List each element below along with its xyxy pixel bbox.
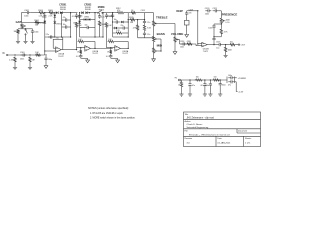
ground <box>87 58 89 60</box>
wire <box>32 34 34 40</box>
title block row line <box>184 128 261 130</box>
svg-text:1K: 1K <box>131 10 134 12</box>
pot GAIN <box>21 23 23 29</box>
ground <box>209 93 211 94</box>
svg-text:1N4148: 1N4148 <box>85 9 91 11</box>
svg-text:100n: 100n <box>24 15 28 17</box>
svg-text:100n: 100n <box>20 58 24 60</box>
svg-text:10K: 10K <box>35 25 39 27</box>
diode D301 <box>56 11 58 14</box>
wire <box>61 13 63 37</box>
wire <box>127 13 129 37</box>
capacitor C328 <box>228 77 231 79</box>
svg-text:+POWER: +POWER <box>238 78 247 80</box>
capacitor C317 <box>144 31 146 33</box>
title block row line <box>184 118 261 120</box>
svg-text:100n: 100n <box>107 16 111 18</box>
wire <box>94 13 96 37</box>
capacitor C307 <box>63 19 66 21</box>
node <box>221 23 222 24</box>
wire <box>219 87 221 93</box>
wire <box>234 77 236 84</box>
resistor R302 <box>35 21 40 23</box>
node <box>189 79 190 80</box>
wire <box>21 28 23 30</box>
diode D308a <box>78 21 81 23</box>
node <box>54 12 55 13</box>
svg-text:1N914: 1N914 <box>84 17 89 19</box>
node <box>102 12 103 13</box>
resistor R312 <box>110 49 112 54</box>
svg-text:PRESENCE: PRESENCE <box>222 12 238 16</box>
svg-text:4.7u: 4.7u <box>76 56 80 58</box>
resistor R316 <box>136 24 138 31</box>
resistor R306 <box>75 22 77 28</box>
resistor R310 <box>105 22 107 28</box>
wire - network2 bottom <box>80 36 103 38</box>
wire <box>236 44 239 46</box>
svg-text:47u: 47u <box>228 84 231 86</box>
pot VOLUME <box>174 36 176 43</box>
node <box>197 10 198 11</box>
wire <box>153 27 155 36</box>
wire <box>153 54 155 57</box>
svg-text:100n: 100n <box>208 27 212 29</box>
ground <box>25 40 27 41</box>
wire <box>62 12 77 14</box>
svg-text:R303: R303 <box>38 10 43 12</box>
wire <box>77 47 85 49</box>
wire <box>22 22 45 24</box>
svg-text:SW301: SW301 <box>99 9 105 11</box>
resistor R318 <box>187 43 193 45</box>
wire <box>103 12 117 14</box>
ground <box>189 93 191 94</box>
resistor R301 <box>17 29 19 34</box>
svg-text:C323: C323 <box>216 42 220 44</box>
diode D302 <box>60 11 62 14</box>
wire <box>180 79 227 81</box>
wire <box>186 25 188 33</box>
node <box>225 44 226 45</box>
node <box>112 21 113 22</box>
node <box>29 54 30 55</box>
wire <box>226 77 228 84</box>
diode D305 <box>44 21 47 23</box>
wire <box>52 39 54 48</box>
svg-text:C302: C302 <box>24 10 29 12</box>
wire <box>158 38 161 40</box>
resistor R311 feedback <box>108 40 115 42</box>
svg-text:10K: 10K <box>108 39 112 41</box>
wire <box>195 44 197 46</box>
ground <box>14 66 16 67</box>
wire <box>20 13 22 23</box>
op-amp U302B <box>202 42 208 47</box>
resistor R322 <box>180 81 182 88</box>
svg-text:Chuck D. Bones: Chuck D. Bones <box>187 124 204 126</box>
wire <box>44 13 46 55</box>
svg-text:2.2K: 2.2K <box>116 30 120 32</box>
wire <box>138 37 154 39</box>
ground <box>186 33 188 35</box>
node <box>144 19 145 20</box>
wire <box>189 88 191 93</box>
svg-text:2. MORE switch shown in the do: 2. MORE switch shown in the down positio… <box>90 117 136 120</box>
wire <box>153 13 155 20</box>
wire <box>115 41 129 43</box>
switch SW301 <box>186 16 188 20</box>
wire <box>88 12 98 14</box>
svg-text:47n: 47n <box>63 17 66 19</box>
svg-text:Sheets: Sheets <box>245 137 251 140</box>
wire <box>128 12 131 14</box>
capacitor C316 <box>144 20 146 22</box>
node <box>128 36 129 37</box>
pot PRESENCE <box>220 18 222 25</box>
wire <box>81 57 88 59</box>
diode D307 <box>54 21 57 23</box>
diode D309 <box>121 21 123 24</box>
svg-text:TL072: TL072 <box>92 53 97 55</box>
svg-text:9V: 9V <box>175 77 178 79</box>
title block document cell <box>236 129 238 133</box>
pot MID <box>152 47 154 54</box>
svg-text:4.7K: 4.7K <box>224 31 228 33</box>
svg-text:4.7u: 4.7u <box>106 56 110 58</box>
ground <box>225 54 227 55</box>
svg-text:File: File <box>185 131 189 133</box>
svg-text:22n: 22n <box>147 34 150 36</box>
svg-text:1 of 1: 1 of 1 <box>245 143 251 145</box>
svg-text:R315: R315 <box>129 17 133 19</box>
resistor R313a <box>131 12 136 14</box>
resistor R317 <box>143 24 145 31</box>
node <box>79 12 80 13</box>
node <box>45 54 46 55</box>
svg-text:1N914: 1N914 <box>38 22 43 24</box>
wire <box>214 23 221 25</box>
wire <box>207 44 216 46</box>
svg-text:47u: 47u <box>200 85 203 87</box>
svg-text:R305: R305 <box>48 10 53 12</box>
wire <box>180 43 197 45</box>
capacitor C324 <box>189 82 191 84</box>
wire <box>198 43 202 45</box>
wire <box>204 88 206 93</box>
wire <box>213 41 215 44</box>
capacitor C314 <box>112 14 114 16</box>
svg-text:10n: 10n <box>63 24 66 26</box>
connector OUT <box>238 44 239 45</box>
svg-text:TL072: TL072 <box>203 51 208 53</box>
wire <box>61 49 76 51</box>
svg-text:1M: 1M <box>14 31 17 33</box>
wire <box>209 88 211 93</box>
resistor R314 <box>116 32 123 34</box>
wire <box>107 47 115 49</box>
ground <box>17 40 19 41</box>
svg-text:MID: MID <box>157 44 163 48</box>
svg-text:1n: 1n <box>42 16 44 18</box>
svg-text:IN: IN <box>2 53 5 55</box>
svg-text:1N914: 1N914 <box>73 22 78 24</box>
wire - network3 bottom <box>113 36 129 38</box>
wire <box>178 39 181 41</box>
wire <box>145 12 154 14</box>
wire <box>94 42 96 49</box>
wire <box>14 63 16 67</box>
node <box>160 50 161 51</box>
capacitor C315a <box>114 21 117 23</box>
diode D303 <box>81 11 83 14</box>
capacitor C322 <box>213 37 215 39</box>
capacitor C327 <box>219 82 221 84</box>
resistor R315 <box>130 19 136 21</box>
svg-text:+4.5V: +4.5V <box>238 91 244 93</box>
capacitor C309a <box>79 14 81 16</box>
resistor R309 <box>98 21 100 27</box>
diode D304 <box>85 11 87 14</box>
node <box>94 48 95 49</box>
diode D306 <box>84 18 86 21</box>
svg-text:1. D5 & D6 are 1N4148 or equiv: 1. D5 & D6 are 1N4148 or equiv. <box>90 112 124 115</box>
resistor R323 <box>195 79 203 81</box>
svg-text:Saturated Engineering: Saturated Engineering <box>187 126 210 129</box>
svg-text:100n: 100n <box>222 85 226 87</box>
wire <box>158 23 175 25</box>
wire <box>31 12 39 14</box>
capacitor C303 <box>32 29 34 31</box>
svg-text:2.2u: 2.2u <box>46 34 50 36</box>
node <box>54 36 55 37</box>
resistor R308 <box>80 49 82 54</box>
ground <box>117 58 119 60</box>
op-amp U301A <box>56 47 62 53</box>
resistor R2 <box>29 57 31 63</box>
capacitor C305 <box>45 56 47 58</box>
node A <box>44 12 45 13</box>
op-amp U301B <box>85 46 91 52</box>
svg-text:LOG: LOG <box>226 22 230 24</box>
ground <box>29 66 31 67</box>
svg-text:NOTES (unless otherwise specif: NOTES (unless otherwise specified): <box>88 107 129 110</box>
capacitor C320 <box>205 10 208 12</box>
wire <box>153 43 155 48</box>
wire <box>235 77 237 79</box>
wire <box>220 24 222 28</box>
wire <box>120 47 128 49</box>
node <box>102 36 103 37</box>
svg-text:10K: 10K <box>108 25 112 27</box>
node <box>210 79 211 80</box>
svg-text:47p: 47p <box>56 38 59 40</box>
svg-text:01-JAN-2021: 01-JAN-2021 <box>218 142 232 145</box>
wire <box>144 36 146 38</box>
svg-text:100: 100 <box>230 42 233 44</box>
svg-text:El Dorado -- JHS Zebramone cb: El Dorado -- JHS Zebramone cb mod v2.sch <box>189 134 231 137</box>
node <box>44 50 45 51</box>
capacitor C307b <box>48 36 51 38</box>
svg-text:1N4148: 1N4148 <box>60 9 66 11</box>
wire <box>220 35 222 37</box>
wire <box>18 28 33 30</box>
wire <box>225 53 227 55</box>
svg-text:C318: C318 <box>180 41 184 43</box>
capacitor C311 <box>99 14 101 16</box>
capacitor C321 <box>213 24 215 26</box>
ground <box>153 57 155 59</box>
svg-text:47n: 47n <box>189 12 192 14</box>
resistor R307 feedback <box>78 40 85 42</box>
wire <box>135 19 144 21</box>
svg-text:C319: C319 <box>189 10 193 12</box>
wire <box>181 88 183 93</box>
wire <box>45 50 56 52</box>
node <box>137 19 138 20</box>
wire <box>17 34 19 40</box>
wire <box>85 41 96 43</box>
node <box>112 12 113 13</box>
capacitor C310 <box>85 27 88 29</box>
svg-text:DEEP: DEEP <box>176 10 183 13</box>
svg-text:47u: 47u <box>192 85 195 87</box>
capacitor C325 <box>204 82 206 84</box>
svg-text:1N914: 1N914 <box>56 23 61 25</box>
svg-text:10K: 10K <box>78 39 82 41</box>
wire <box>45 62 47 65</box>
ground <box>219 93 221 94</box>
svg-text:22n: 22n <box>121 25 124 27</box>
capacitor C309 <box>80 54 82 56</box>
ground <box>45 64 47 66</box>
resistor R321 <box>230 43 236 45</box>
resistor R1 <box>14 57 16 63</box>
wire <box>137 20 139 24</box>
wire <box>76 28 78 50</box>
svg-text:Title: Title <box>185 113 190 116</box>
wire <box>137 31 139 38</box>
capacitor C312 <box>106 13 108 15</box>
svg-text:Revision: Revision <box>185 138 193 140</box>
svg-text:OUT: OUT <box>241 45 246 47</box>
svg-text:JHS Zebramone - clip mod: JHS Zebramone - clip mod <box>187 116 215 119</box>
ground <box>32 40 34 41</box>
pot BASS <box>152 36 154 43</box>
wire <box>90 47 112 49</box>
wire <box>125 12 129 14</box>
svg-text:3.0: 3.0 <box>187 143 191 145</box>
pot GAIN wiper <box>23 25 26 27</box>
node <box>197 43 198 44</box>
node <box>213 44 214 45</box>
title block row line <box>184 135 261 137</box>
wire <box>223 44 230 46</box>
pot VOLUME wiper <box>176 39 179 41</box>
node <box>220 79 221 80</box>
ground <box>174 50 176 52</box>
svg-text:8.2K: 8.2K <box>147 27 151 29</box>
wire <box>214 36 221 38</box>
capacitor C301 <box>21 54 24 56</box>
wire <box>197 11 199 44</box>
resistor R319 <box>220 28 222 35</box>
svg-text:10n: 10n <box>114 19 117 21</box>
capacitor C318 <box>181 43 184 45</box>
capacitor C315b <box>121 27 124 29</box>
wire <box>21 12 25 14</box>
op-amp U302A <box>115 46 121 52</box>
svg-text:470: 470 <box>117 10 120 12</box>
wire <box>112 13 114 37</box>
svg-text:10u: 10u <box>216 47 219 49</box>
wire <box>53 38 63 40</box>
svg-text:C320: C320 <box>205 8 210 10</box>
connector 9V <box>179 79 181 81</box>
svg-text:VOLUME: VOLUME <box>171 32 183 36</box>
svg-text:100: 100 <box>196 77 199 79</box>
resistor R305 <box>49 12 55 14</box>
svg-text:1u: 1u <box>76 16 78 18</box>
wire <box>174 24 176 37</box>
capacitor C308a <box>63 26 66 28</box>
svg-text:Author:: Author: <box>185 120 192 123</box>
switch MORE <box>97 12 98 13</box>
svg-text:TREBLE: TREBLE <box>156 16 168 20</box>
title block revision dividers <box>215 136 217 146</box>
svg-text:1M: 1M <box>32 60 35 62</box>
svg-text:100n: 100n <box>34 31 38 33</box>
svg-text:C301: C301 <box>20 52 25 54</box>
node <box>128 48 129 49</box>
svg-text:10K: 10K <box>78 25 82 27</box>
wire <box>106 28 108 48</box>
svg-text:100K: 100K <box>228 50 233 52</box>
svg-text:Document: Document <box>238 130 248 133</box>
svg-text:GAIN: GAIN <box>16 21 22 24</box>
resistor R324 <box>213 79 221 81</box>
wire <box>174 43 176 50</box>
svg-text:22n: 22n <box>147 22 150 24</box>
wire <box>102 13 104 37</box>
ground <box>204 93 206 94</box>
wire <box>220 11 222 18</box>
diode D307 <box>88 18 90 21</box>
switch MORE <box>25 29 26 30</box>
svg-text:C321: C321 <box>212 8 217 10</box>
svg-text:100: 100 <box>214 77 217 79</box>
wire <box>187 10 198 12</box>
wire <box>53 47 55 49</box>
ground <box>181 93 183 94</box>
pot TREBLE wiper <box>155 23 158 25</box>
wire <box>128 19 130 21</box>
svg-text:BASS: BASS <box>157 32 165 36</box>
node <box>110 47 111 48</box>
pot MID wiper <box>155 50 158 52</box>
capacitor C326 <box>209 82 211 84</box>
wire <box>160 39 162 51</box>
capacitor C329 <box>228 81 231 83</box>
capacitor C308 <box>76 13 78 15</box>
diode D310 <box>115 27 117 30</box>
svg-text:TL072: TL072 <box>58 56 63 58</box>
capacitor C323 <box>217 44 220 46</box>
wire <box>127 42 129 49</box>
wire <box>70 13 72 37</box>
wire <box>45 12 50 14</box>
svg-text:100n: 100n <box>205 14 209 16</box>
